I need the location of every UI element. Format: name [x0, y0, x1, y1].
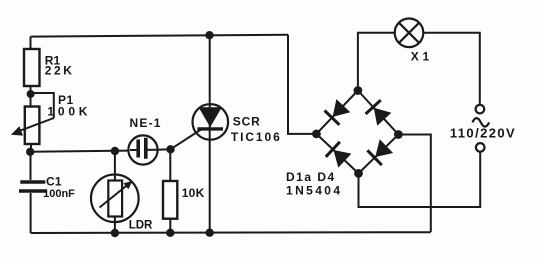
resistor R1 — [24, 49, 40, 86]
capacitor C1 — [20, 180, 45, 184]
svg-text:NE-1: NE-1 — [130, 116, 162, 130]
node junction SCR anode / top rail — [205, 31, 213, 39]
AC symbol — [472, 118, 489, 126]
LDR — [114, 151, 116, 175]
wire mid rail left segment — [30, 151, 129, 152]
bridge edge bottom-left — [316, 134, 358, 174]
wire bridge top to lamp — [358, 33, 395, 91]
wire mid rail right segment — [157, 148, 171, 151]
wire P1 wiper bracket — [31, 93, 54, 118]
node junction LDR top — [111, 147, 119, 155]
svg-text:110/220V: 110/220V — [450, 126, 516, 141]
diode D2 bottom-left — [326, 142, 340, 157]
wire P1 wiper arrow — [16, 118, 54, 132]
wire lower terminal to bridge bottom — [359, 152, 481, 207]
node junction LDR bottom — [111, 229, 119, 237]
svg-text:LDR: LDR — [129, 219, 153, 231]
terminal lower — [476, 143, 485, 152]
svg-text:1N5404: 1N5404 — [286, 184, 342, 198]
potentiometer P1 — [25, 107, 40, 145]
wire SCR gate — [171, 130, 202, 150]
diode D4 bottom-right — [367, 150, 381, 165]
resistor R 10K — [169, 149, 171, 181]
svg-text:D1a D4: D1a D4 — [286, 170, 336, 184]
wire bottom rail — [31, 231, 431, 234]
svg-text:100nF: 100nF — [43, 188, 75, 200]
svg-text:10K: 10K — [182, 186, 205, 200]
bridge edge top-right — [358, 91, 399, 135]
diode D3 top-right — [366, 100, 381, 114]
svg-text:SCR: SCR — [233, 115, 261, 129]
wire left vertical to R1 — [30, 37, 32, 49]
node junction R1/P1 — [27, 90, 35, 98]
svg-text:X1: X1 — [411, 49, 433, 63]
node junction SCR cathode / bottom rail — [206, 229, 214, 237]
terminal upper — [476, 105, 485, 114]
node junction NE-1/10K/gate — [166, 145, 174, 153]
node bridge top — [354, 86, 363, 95]
bridge edge right-bottom — [359, 135, 399, 174]
wire top rail corner down to bridge left — [288, 35, 316, 134]
wire C1 bottom lead — [30, 193, 32, 233]
wire P1 to mid rail — [30, 144, 32, 152]
wire R1 to P1 — [30, 86, 32, 106]
diode D1 top-left — [325, 111, 340, 125]
node bridge right — [394, 130, 403, 139]
svg-text:TIC106: TIC106 — [231, 130, 282, 144]
svg-text:22K: 22K — [45, 63, 75, 77]
node bridge left — [312, 130, 321, 139]
node bridge bottom — [354, 169, 363, 178]
wire C1 top lead — [30, 152, 32, 180]
SCR TIC106 — [193, 104, 229, 140]
node junction 10K bottom — [166, 229, 174, 237]
svg-text:C1: C1 — [46, 175, 62, 189]
svg-text:100K: 100K — [47, 104, 91, 118]
lamp X1 — [395, 19, 424, 48]
neon lamp NE-1 — [128, 135, 157, 164]
node junction P1/C1/mid-rail — [26, 148, 34, 156]
wire bridge right to bottom rail — [398, 135, 430, 233]
wire top rail — [31, 35, 289, 37]
bridge edge left-top — [316, 91, 358, 134]
wire lamp to upper terminal — [423, 33, 480, 105]
wire SCR vertical — [209, 35, 211, 233]
